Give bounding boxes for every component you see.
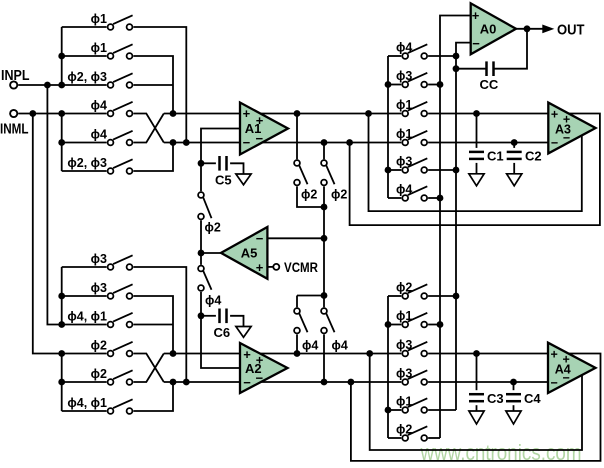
switch phi3 bottom-left row2 bbox=[108, 293, 114, 299]
wire minus bus down to phi2 sense switch bbox=[323, 143, 325, 160]
switch phi4,phi1 bottom-left row3 bbox=[108, 322, 114, 328]
switch phi2,phi3 top-left row6 bbox=[108, 168, 114, 174]
node A4 out- loop tap on plus bus2 bbox=[366, 350, 373, 357]
wire bottom-left row4 right crossover down bbox=[133, 354, 163, 383]
node phi4 sense bus bbox=[321, 292, 328, 299]
wire bottom-right row5 right bbox=[428, 409, 456, 411]
wire phi4 switch down to A2 common-mode input bbox=[201, 292, 240, 368]
wire plus bus down to phi2 sense switch bbox=[296, 114, 298, 160]
svg-text:ϕ1: ϕ1 bbox=[396, 98, 412, 112]
wire bottom-left row6 right up to minus bus bbox=[133, 382, 173, 411]
wire bottom-left row1 left bbox=[62, 266, 107, 268]
wire A1 plus bus bbox=[164, 113, 401, 115]
switch phi3 bottom-right row4 bbox=[402, 379, 408, 385]
wire bottom-right row2 left bbox=[388, 324, 401, 326]
node bottom-left column row5 bbox=[58, 379, 65, 386]
node A3 out- loop tap on plus bus bbox=[365, 110, 372, 117]
wire phi2 sense right down to phi4 bus bbox=[323, 186, 325, 295]
switch phi2 bottom-left row4 bbox=[108, 351, 114, 357]
wire A4 out- feedback loop inner bbox=[370, 354, 582, 451]
svg-text:INML: INML bbox=[0, 121, 29, 138]
op-amp A4 bbox=[548, 343, 596, 393]
switch phi2,phi3 top-left row3 bbox=[108, 82, 114, 88]
capacitor CC bbox=[485, 61, 488, 76]
node C3 tap bbox=[473, 350, 480, 357]
svg-text:ϕ4: ϕ4 bbox=[91, 128, 107, 142]
wire A0 output bbox=[516, 28, 544, 30]
svg-text:A0: A0 bbox=[480, 22, 497, 37]
terminal VCMR bbox=[273, 264, 279, 270]
node A5 inverting input tap bbox=[321, 235, 328, 242]
svg-text:C2: C2 bbox=[525, 149, 542, 164]
wire bottom-right row5 left bbox=[388, 409, 401, 411]
svg-text:ϕ3: ϕ3 bbox=[91, 252, 107, 266]
svg-text:−: − bbox=[243, 135, 251, 150]
node plus bus2 crossover junction bbox=[170, 350, 177, 357]
node bottom-left column row4 bbox=[58, 350, 65, 357]
wire top-right row1 right bbox=[428, 55, 456, 57]
node minus bus row6 junction bbox=[170, 139, 177, 146]
switch phi2 bottom-right row1 bbox=[402, 293, 408, 299]
switch phi3 top-right row2 bbox=[402, 82, 408, 88]
node top-right column row5 bbox=[385, 167, 392, 174]
svg-text:C1: C1 bbox=[487, 149, 504, 164]
wire bottom-left row2 right down to plus bus bbox=[133, 296, 173, 354]
node minus bus phi2 tap bbox=[321, 139, 328, 146]
svg-text:ϕ1: ϕ1 bbox=[396, 127, 412, 141]
node top-left column row2 bbox=[58, 53, 65, 60]
wire top-left bank upper column bbox=[61, 27, 63, 85]
wire bottom-right row1 right bbox=[428, 295, 456, 297]
svg-text:ϕ3: ϕ3 bbox=[396, 155, 412, 169]
node A5 output bbox=[198, 250, 205, 257]
svg-text:ϕ1: ϕ1 bbox=[91, 12, 107, 26]
svg-text:ϕ4, ϕ1: ϕ4, ϕ1 bbox=[67, 310, 107, 324]
node CC at A0 inverting vertical bbox=[453, 65, 460, 72]
svg-text:ϕ2: ϕ2 bbox=[205, 221, 221, 235]
node minus bus2 phi4 tap bbox=[321, 379, 328, 386]
wire A5 non-inverting input to VCMR terminal bbox=[267, 266, 272, 268]
wire bottom-left row1 right down to minus bus bbox=[133, 267, 186, 382]
switch phi1 top-left row1 bbox=[108, 24, 114, 30]
svg-text:ϕ3: ϕ3 bbox=[396, 338, 412, 352]
wire bottom-left row3 right bbox=[133, 324, 173, 326]
wire top-left row5 right crossover up bbox=[133, 114, 163, 143]
svg-text:ϕ4, ϕ1: ϕ4, ϕ1 bbox=[67, 396, 107, 410]
svg-text:+: + bbox=[551, 108, 558, 122]
svg-text:ϕ3: ϕ3 bbox=[396, 69, 412, 83]
ground below C2 bbox=[507, 174, 522, 186]
output arrow bbox=[542, 25, 554, 34]
op-amp A1 bbox=[240, 103, 288, 155]
ground below C5 bbox=[236, 174, 251, 185]
node A0- vertical at bottom-right row1 bbox=[453, 293, 460, 300]
wire CC feedback bbox=[494, 29, 527, 69]
wire bottom-right row2 right bbox=[428, 324, 440, 326]
svg-text:+: + bbox=[243, 106, 251, 121]
wire top-left row6 left bbox=[62, 170, 107, 172]
svg-text:ϕ2: ϕ2 bbox=[91, 339, 107, 353]
switch phi1 top-right row3 bbox=[402, 111, 408, 117]
wire top-left bank lower column bbox=[61, 114, 63, 172]
node bottom-left column row2 bbox=[58, 293, 65, 300]
svg-text:−: − bbox=[563, 131, 570, 145]
node C4 tap bbox=[510, 379, 517, 386]
node top-right column row2 bbox=[385, 81, 392, 88]
svg-text:−: − bbox=[256, 370, 264, 385]
svg-text:−: − bbox=[551, 376, 558, 390]
svg-text:+: + bbox=[243, 347, 251, 362]
svg-text:C5: C5 bbox=[215, 173, 232, 188]
input terminal INPL bbox=[10, 81, 17, 88]
node A3 out+ loop tap on minus bus bbox=[346, 139, 353, 146]
wire top-right row6 right bbox=[428, 197, 440, 199]
svg-text:−: − bbox=[256, 131, 264, 146]
svg-text:ϕ4: ϕ4 bbox=[396, 41, 412, 55]
switch phi4 CM-sense left bbox=[294, 308, 300, 314]
svg-text:ϕ4: ϕ4 bbox=[396, 183, 412, 197]
svg-text:ϕ2: ϕ2 bbox=[331, 188, 347, 202]
wire bottom-left row4 left bbox=[62, 353, 107, 355]
switch phi3 bottom-left row1 bbox=[108, 264, 114, 270]
svg-text:ϕ2, ϕ3: ϕ2, ϕ3 bbox=[67, 70, 107, 84]
svg-text:−: − bbox=[563, 371, 570, 385]
svg-text:+: + bbox=[256, 260, 264, 275]
ground below C6 bbox=[236, 327, 251, 338]
switch phi1 top-left row2 bbox=[108, 53, 114, 59]
wire INML to top-left bank row4 bbox=[18, 113, 106, 115]
svg-text:ϕ2: ϕ2 bbox=[91, 367, 107, 381]
wire top-left row2 right down to plus bus bbox=[133, 56, 173, 114]
wire bottom-left bank lower column bbox=[61, 354, 63, 412]
node top-left column row5 bbox=[58, 139, 65, 146]
switch phi2 bottom-left row5 bbox=[108, 379, 114, 385]
capacitor C3 bbox=[476, 354, 478, 391]
wire phi2 switch to A5 output node bbox=[200, 220, 202, 264]
switch phi4 CM-sense right bbox=[321, 308, 327, 314]
svg-text:−: − bbox=[243, 375, 251, 390]
svg-text:C6: C6 bbox=[214, 325, 231, 340]
svg-text:ϕ4: ϕ4 bbox=[205, 294, 221, 308]
wire bottom-left bank upper column bbox=[61, 267, 63, 325]
node top-left column row3 bbox=[58, 82, 65, 89]
wire A2 plus bus bbox=[164, 353, 401, 355]
node top-left column row4 bbox=[58, 110, 65, 117]
wire A2 minus bus bbox=[164, 381, 401, 383]
wire A5 output to CM chain bbox=[201, 252, 221, 254]
svg-text:−: − bbox=[472, 36, 480, 51]
node bottom-right column row5 bbox=[385, 407, 392, 414]
capacitor C5 bbox=[218, 156, 221, 171]
wire bottom-right bank left column bbox=[387, 296, 389, 438]
wire top-left row6 right up to minus bus bbox=[133, 143, 173, 172]
node bottom-left column row3 bbox=[58, 321, 65, 328]
node bottom-right column row2 bbox=[385, 321, 392, 328]
svg-text:−: − bbox=[256, 231, 264, 246]
svg-text:ϕ2: ϕ2 bbox=[396, 281, 412, 295]
switch phi3 top-right row5 bbox=[402, 167, 408, 173]
switch phi4 in CM chain lower bbox=[198, 266, 204, 272]
node A0+ vertical at bottom-right row2 bbox=[437, 321, 444, 328]
wire top-right row5 left bbox=[388, 169, 401, 171]
capacitor C1 bbox=[476, 114, 478, 148]
svg-text:ϕ1: ϕ1 bbox=[396, 395, 412, 409]
wire top-right row5 right bbox=[428, 169, 456, 171]
node A0+ vertical at top-right row6 bbox=[437, 195, 444, 202]
wire INPL bus down to bottom-left bank row3 bbox=[47, 85, 61, 325]
node minus bus2 row1 junction bbox=[183, 379, 190, 386]
input terminal INML bbox=[10, 110, 17, 117]
wire A3 out+ feedback loop outer bbox=[350, 114, 600, 226]
switch phi4 top-left row5 bbox=[108, 140, 114, 146]
node C5 tap bbox=[198, 160, 205, 167]
node A0+ vertical at top-right row2 bbox=[437, 81, 444, 88]
wire top-left row4 right crossover down bbox=[133, 114, 163, 143]
svg-text:C4: C4 bbox=[524, 391, 541, 406]
svg-text:ϕ2: ϕ2 bbox=[396, 423, 412, 437]
switch phi4 top-left row4 bbox=[108, 111, 114, 117]
wire phi4 sense left top bbox=[296, 296, 298, 308]
node C2 tap bbox=[511, 139, 518, 146]
wire phi2 sense left bottom bbox=[297, 186, 324, 207]
node plus bus phi2 tap bbox=[294, 110, 301, 117]
svg-text:INPL: INPL bbox=[1, 67, 30, 84]
wire top-right row1 left bbox=[388, 55, 401, 57]
wire A0 non-inverting input vertical bbox=[440, 16, 471, 439]
ground below C1 bbox=[469, 174, 484, 186]
svg-text:VCMR: VCMR bbox=[284, 260, 318, 275]
op-amp A2 bbox=[240, 343, 288, 393]
wire phi4 sense top bus bbox=[297, 295, 324, 297]
svg-text:+: + bbox=[472, 8, 480, 23]
svg-text:CC: CC bbox=[480, 77, 499, 92]
wire bottom-right row6 right bbox=[428, 437, 440, 439]
op-amp A5 bbox=[221, 227, 267, 279]
switch phi2 in CM chain upper bbox=[198, 192, 204, 198]
wire bottom-left row3 left bbox=[62, 324, 107, 326]
svg-text:ϕ3: ϕ3 bbox=[396, 367, 412, 381]
svg-text:+: + bbox=[551, 348, 558, 362]
switch phi1 bottom-right row2 bbox=[402, 322, 408, 328]
wire INPL to top-left bank row3 bbox=[18, 84, 106, 86]
switch phi2 CM-sense left bbox=[294, 160, 300, 166]
wire bottom-left row5 left bbox=[62, 381, 107, 383]
node plus bus2 phi4 tap bbox=[294, 350, 301, 357]
wire A4 out+ feedback loop outer bbox=[351, 354, 601, 461]
wire top-right bank left column bbox=[387, 56, 389, 198]
svg-text:ϕ4: ϕ4 bbox=[91, 99, 107, 113]
switch phi2 CM-sense right bbox=[321, 160, 327, 166]
svg-text:ϕ4: ϕ4 bbox=[332, 339, 348, 353]
op-amp A3 bbox=[548, 103, 595, 154]
node A0 output CC tap bbox=[524, 25, 531, 32]
ground below C4 bbox=[506, 411, 521, 424]
wire top-right row2 right bbox=[428, 84, 440, 86]
wire A1 minus bus bbox=[164, 142, 401, 144]
switch phi4,phi1 bottom-left row6 bbox=[108, 408, 114, 414]
wire A5 inverting input bbox=[267, 237, 324, 239]
switch phi2 bottom-right row6 bbox=[402, 435, 408, 441]
capacitor C6 junction wire bbox=[201, 315, 216, 317]
node INPL bus junction bbox=[44, 82, 51, 89]
wire bottom-left row5 right crossover up bbox=[133, 354, 163, 383]
wire top-left row3 right bbox=[133, 84, 173, 86]
wire top-left row2 left bbox=[62, 55, 107, 57]
node C6 tap bbox=[198, 312, 205, 319]
wire bottom-left row6 left bbox=[62, 410, 107, 412]
svg-text:ϕ1: ϕ1 bbox=[91, 41, 107, 55]
wire top-left row1 left bbox=[62, 26, 107, 28]
node C1 tap bbox=[473, 110, 480, 117]
svg-text:ϕ3: ϕ3 bbox=[91, 281, 107, 295]
svg-text:A5: A5 bbox=[241, 246, 258, 261]
wire top-right row2 left bbox=[388, 84, 401, 86]
node plus bus crossover junction bbox=[170, 110, 177, 117]
wire A3 out- feedback loop inner bbox=[369, 114, 582, 212]
switch phi1 bottom-right row5 bbox=[402, 407, 408, 413]
svg-text:ϕ2, ϕ3: ϕ2, ϕ3 bbox=[67, 156, 107, 170]
node A4 out+ loop tap on minus bus2 bbox=[348, 379, 355, 386]
svg-text:ϕ1: ϕ1 bbox=[396, 309, 412, 323]
wire phi4 sense left down to plus bus2 bbox=[296, 334, 298, 353]
wire A0 inverting input vertical bbox=[456, 43, 471, 410]
node A0- vertical at top-right row1 bbox=[453, 53, 460, 60]
node A0- vertical at top-right row5 bbox=[453, 167, 460, 174]
svg-text:−: − bbox=[551, 136, 558, 150]
svg-text:ϕ4: ϕ4 bbox=[302, 339, 318, 353]
node phi2 sense join bbox=[321, 204, 328, 211]
switch phi4 top-right row1 bbox=[402, 53, 408, 59]
capacitor C2 bbox=[513, 143, 515, 148]
wire phi4 sense right down to minus bus2 bbox=[323, 334, 325, 382]
capacitor C4 bbox=[513, 382, 515, 390]
svg-text:OUT: OUT bbox=[557, 22, 585, 39]
wire top-left row1 right down to minus bus bbox=[133, 27, 186, 143]
node INML bus junction bbox=[29, 110, 36, 117]
wire bottom-left row2 left bbox=[62, 295, 107, 297]
op-amp A0 bbox=[471, 3, 516, 54]
wire A1 common-mode input bbox=[201, 129, 240, 192]
wire top-left row5 left bbox=[62, 142, 107, 144]
wire phi4 sense right top bbox=[323, 296, 325, 308]
switch phi4 top-right row6 bbox=[402, 195, 408, 201]
svg-text:C3: C3 bbox=[487, 391, 504, 406]
wire INML bus down to bottom-left bank row4 bbox=[33, 114, 62, 354]
wire bottom-right row6 left bbox=[388, 437, 401, 439]
wire bottom-right row1 left bbox=[388, 295, 401, 297]
capacitor C5 junction wire bbox=[201, 162, 216, 164]
node minus bus row1 junction bbox=[183, 139, 190, 146]
ground below C3 bbox=[469, 411, 484, 424]
switch phi3 bottom-right row3 bbox=[402, 351, 408, 357]
svg-text:ϕ2: ϕ2 bbox=[301, 188, 317, 202]
capacitor C6 bbox=[218, 309, 221, 324]
switch phi1 top-right row4 bbox=[402, 140, 408, 146]
wire top-right row6 left bbox=[388, 197, 401, 199]
node minus bus2 row6 junction bbox=[170, 379, 177, 386]
